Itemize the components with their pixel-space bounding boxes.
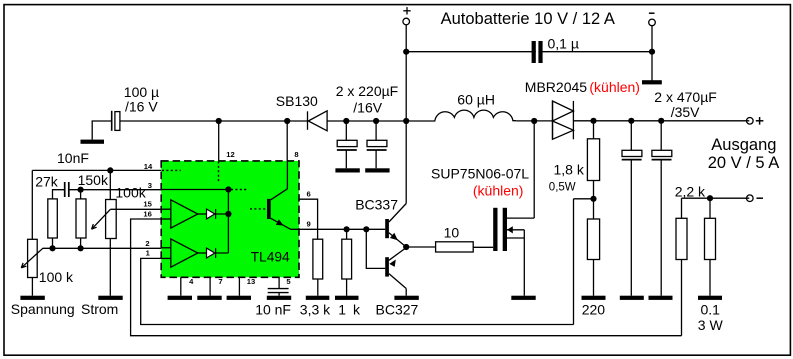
output plus terminal	[747, 117, 764, 125]
svg-text:2: 2	[145, 239, 149, 248]
wire vref left drop	[31, 170, 33, 239]
junction 1,8k top	[590, 118, 596, 124]
svg-text:Ausgang: Ausgang	[711, 136, 776, 154]
resistor 2,2k	[676, 218, 687, 259]
transistor BC327	[385, 248, 406, 289]
wire gate resistor to gate	[473, 246, 493, 248]
svg-text:12: 12	[226, 150, 234, 159]
svg-text:8: 8	[294, 150, 298, 159]
inductor 60uH	[435, 110, 516, 121]
junction 1k top	[344, 226, 350, 232]
wire pin 7 stub	[209, 277, 211, 295]
svg-text:0,1 µ: 0,1 µ	[548, 35, 579, 51]
svg-text:1,8 k: 1,8 k	[554, 162, 585, 178]
capacitor 470uF a	[622, 121, 642, 296]
wire diode bus vertical	[227, 190, 229, 254]
wire output rail	[573, 120, 749, 122]
diode amp1	[207, 209, 229, 219]
diode MBR2045	[553, 101, 574, 139]
wire 0,1u top	[406, 51, 652, 53]
wire 1,8k bottom	[593, 181, 595, 220]
capacitor 220uF a	[337, 121, 357, 168]
wire 10nF left to 27k	[53, 190, 65, 199]
svg-text:SUP75N06-07L: SUP75N06-07L	[431, 166, 529, 182]
wire feedback drop vertical	[573, 199, 575, 325]
junction 27k bus	[49, 245, 55, 251]
transistor output inside TL494	[250, 161, 290, 229]
junction battery minus	[649, 49, 655, 55]
capacitor 470uF b	[652, 121, 672, 296]
svg-text:/16 V: /16 V	[125, 99, 158, 115]
wire 27k bottom stub	[52, 238, 54, 248]
svg-text:9: 9	[307, 219, 311, 228]
wire shunt bottom	[709, 260, 711, 296]
wire 1,8k top stub	[593, 121, 595, 139]
resistor 27k	[48, 199, 58, 238]
wire pin 16 current feedback	[131, 219, 682, 336]
ground 3,3k	[306, 296, 330, 300]
svg-text:Strom: Strom	[81, 301, 118, 317]
resistor 1k	[342, 239, 352, 279]
wire pin 12 drop	[218, 121, 220, 161]
wire battery minus down	[651, 26, 653, 81]
junction comp node	[225, 186, 231, 192]
svg-text:(kühlen): (kühlen)	[473, 182, 524, 198]
wire 3,3k bottom	[317, 279, 319, 296]
ground 470uF b	[649, 296, 673, 300]
wire strom pot bottom	[109, 239, 111, 296]
junction feedback divider	[590, 196, 596, 202]
resistor 150k	[76, 199, 86, 238]
wire 100u left	[92, 121, 111, 140]
wire 2,2k top stub	[681, 198, 683, 218]
svg-text:10 nF: 10 nF	[255, 301, 291, 317]
wire 1k top stub	[346, 229, 348, 239]
wire spannung pot bottom	[31, 278, 33, 296]
svg-text:27k: 27k	[35, 174, 59, 190]
svg-text:(kühlen): (kühlen)	[589, 79, 640, 95]
svg-text:3 W: 3 W	[698, 317, 724, 333]
ground 100u	[81, 140, 105, 144]
svg-text:60 µH: 60 µH	[457, 92, 495, 108]
potentiometer 100 k spannung	[21, 239, 43, 277]
junction 150k bus	[78, 245, 84, 251]
junction mosfet drain	[531, 118, 537, 124]
ground spannung pot	[20, 296, 44, 300]
svg-text:150k: 150k	[78, 172, 109, 188]
junction shunt top	[707, 195, 713, 201]
wire pin 2 bus	[43, 247, 162, 249]
svg-text:TL494: TL494	[251, 250, 290, 265]
wire comp net pin 3	[69, 189, 161, 191]
svg-text:1 k: 1 k	[338, 301, 361, 317]
wire pin 5 stub	[278, 277, 280, 288]
svg-text:6: 6	[307, 189, 311, 198]
wire pin 4 stub	[180, 277, 182, 295]
svg-text:100k: 100k	[115, 185, 146, 201]
resistor 10 gate	[436, 242, 474, 252]
node comp dotted	[231, 189, 246, 191]
battery minus terminal	[649, 13, 656, 26]
junction cap470 b	[658, 118, 664, 124]
junction pin8 drop	[284, 118, 290, 124]
junction diode1 out	[225, 211, 231, 217]
capacitor 10 nF pin5	[268, 289, 289, 296]
svg-text:220: 220	[582, 301, 606, 317]
transistor SUP75N06-07L mosfet	[493, 121, 534, 296]
svg-text:/35V: /35V	[671, 104, 700, 120]
wire 150k top stub	[80, 190, 82, 199]
ground shunt	[698, 296, 722, 300]
resistor 3,3k	[313, 239, 323, 279]
svg-text:MBR2045: MBR2045	[525, 79, 587, 95]
svg-text:/16V: /16V	[353, 99, 382, 115]
wire divider to feedback drop	[574, 198, 594, 200]
wire emitters to gate resistor	[406, 246, 435, 248]
resistor 0.1 shunt	[705, 218, 716, 259]
svg-text:2 x 470µF: 2 x 470µF	[654, 89, 717, 105]
resistor 1,8k	[587, 139, 599, 181]
ground pin 13	[227, 296, 251, 300]
resistor 220	[587, 219, 599, 260]
svg-text:BC337: BC337	[355, 197, 398, 213]
wire pin 15 to strom wiper	[110, 208, 161, 210]
svg-text:3: 3	[148, 181, 152, 190]
wire 150k bottom stub	[80, 238, 82, 248]
ground 220uF a	[335, 168, 359, 172]
junction driver emitters	[403, 244, 409, 250]
wire main rail left	[120, 120, 308, 122]
capacitor 10nF compensation	[65, 182, 69, 197]
wire pin 1 voltage feedback	[141, 258, 574, 324]
junction battery rail	[403, 118, 409, 124]
svg-text:Autobatterie 10 V / 12 A: Autobatterie 10 V / 12 A	[441, 10, 615, 28]
node vcc dotted inside pin 12	[218, 162, 220, 184]
svg-text:7: 7	[218, 277, 222, 286]
wire rail diode to battery	[327, 120, 435, 122]
ground 220	[582, 296, 606, 300]
junction strom pot top	[107, 167, 113, 173]
wire 1k bottom	[346, 279, 348, 296]
transistor BC337	[385, 204, 406, 248]
potentiometer 100k strom	[92, 170, 117, 238]
junction battery plus	[403, 49, 409, 55]
junction cap220 a	[343, 118, 349, 124]
wire output minus	[682, 197, 750, 199]
capacitor 0,1u	[532, 41, 543, 63]
ground pin 4	[168, 296, 192, 300]
wire inductor right	[516, 120, 552, 122]
wire 2,2k bottom to feedback	[681, 260, 683, 336]
ground mosfet source	[511, 296, 535, 300]
op-amp error amp 2	[161, 239, 206, 267]
ground 470uF a	[620, 296, 644, 300]
ground strom pot	[98, 296, 122, 300]
output minus terminal	[747, 195, 764, 202]
wire shunt top stub	[709, 198, 711, 218]
wire pin 13 stub	[238, 277, 240, 295]
wire battery plus down	[405, 25, 407, 121]
svg-text:0,5W: 0,5W	[549, 181, 576, 193]
ground pin 5	[267, 296, 291, 300]
junction cap470 a	[628, 118, 634, 124]
junction pin12 drop	[216, 118, 222, 124]
svg-text:2 x 220µF: 2 x 220µF	[336, 83, 399, 99]
wire pin 9	[290, 228, 385, 230]
ground pin 7	[197, 296, 221, 300]
svg-text:15: 15	[143, 199, 152, 208]
wire BC327 collector down	[405, 289, 407, 296]
svg-text:13: 13	[247, 277, 255, 286]
ground battery minus	[642, 80, 662, 84]
svg-text:10nF: 10nF	[57, 150, 89, 166]
wire vref net pin 14	[32, 169, 161, 171]
wire pin3 comp inside	[161, 189, 228, 191]
op-amp error amp 1	[161, 200, 206, 228]
IC TL494 box	[161, 161, 299, 277]
svg-text:20 V / 5 A: 20 V / 5 A	[708, 154, 780, 172]
svg-text:0.1: 0.1	[701, 301, 721, 317]
svg-text:14: 14	[144, 162, 153, 171]
diode amp2	[207, 248, 229, 258]
node vref dotted inside	[162, 169, 181, 171]
ground BC327	[394, 296, 418, 300]
junction cap220 b	[373, 118, 379, 124]
junction base branch	[363, 226, 369, 232]
svg-text:BC327: BC327	[376, 301, 419, 317]
junction 150k top	[78, 187, 84, 193]
svg-text:2,2 k: 2,2 k	[675, 183, 706, 199]
svg-text:SB130: SB130	[276, 93, 318, 109]
wire pin 6 to 3,3k	[299, 199, 318, 239]
wire 220 bottom	[593, 260, 595, 296]
battery plus terminal	[403, 7, 411, 25]
svg-text:3,3 k: 3,3 k	[300, 301, 331, 317]
svg-text:16: 16	[143, 209, 151, 218]
wire BC337 collector up	[405, 121, 407, 204]
svg-text:100 k: 100 k	[39, 269, 74, 285]
diode SB130	[308, 111, 328, 131]
capacitor 220uF b	[367, 121, 387, 168]
ground 1k	[335, 296, 359, 300]
capacitor 100u	[112, 111, 120, 131]
wire BC327 base branch	[366, 229, 385, 268]
ground 220uF b	[365, 168, 389, 172]
wire pin 8 drop	[286, 121, 288, 161]
svg-text:10: 10	[444, 224, 460, 240]
svg-text:Spannung: Spannung	[11, 301, 75, 317]
